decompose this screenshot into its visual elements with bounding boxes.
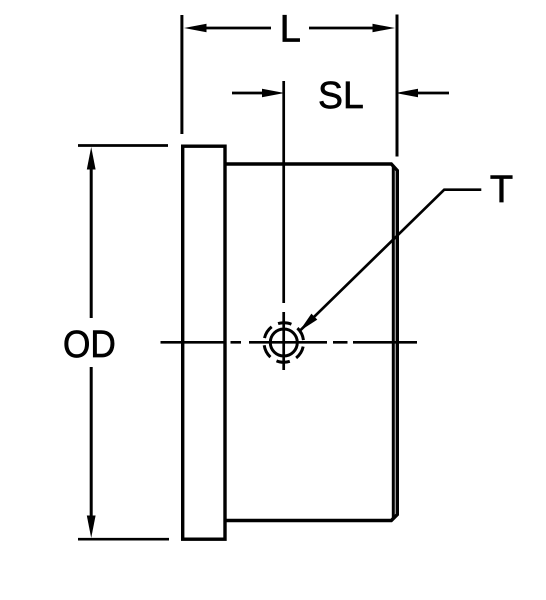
leader arrowhead xyxy=(299,314,317,332)
flange outline xyxy=(183,146,225,539)
svg-text:SL: SL xyxy=(318,75,364,117)
OD top extension line xyxy=(78,144,168,147)
svg-text:T: T xyxy=(490,169,513,211)
body outline xyxy=(225,164,397,521)
L left extension line xyxy=(180,15,183,134)
hole thread dashed circle xyxy=(260,319,307,366)
SL left arrow xyxy=(232,92,264,95)
svg-text:L: L xyxy=(280,9,301,51)
vertical centerline xyxy=(282,81,285,370)
L dimension line right with arrow xyxy=(309,27,375,30)
svg-text:OD: OD xyxy=(63,324,116,366)
horizontal centerline xyxy=(161,341,418,344)
SL right arrow xyxy=(416,92,449,95)
OD bottom extension line xyxy=(78,538,169,541)
OD dimension line lower with arrow xyxy=(90,367,93,517)
hole tap-drill solid circle xyxy=(270,329,297,356)
leader line to T xyxy=(299,190,481,332)
OD dimension line upper with arrow xyxy=(90,167,93,318)
L right extension line xyxy=(396,15,399,157)
L dimension line left with arrow xyxy=(204,27,271,30)
chamfer inner line xyxy=(392,166,395,519)
